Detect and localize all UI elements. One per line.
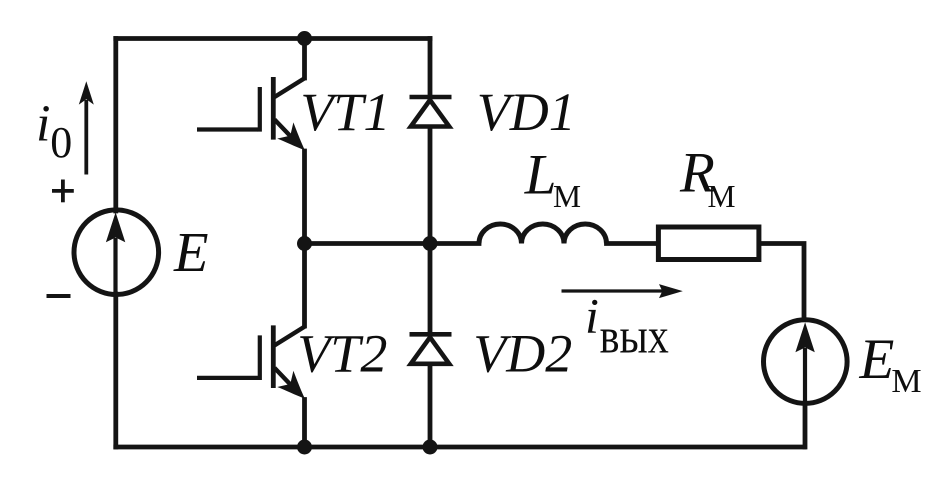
svg-text:вых: вых (600, 308, 669, 364)
current arrow i_vyh (562, 284, 683, 298)
wire VT1 emitter (302, 151, 307, 244)
wire VD1 cathode (428, 39, 433, 98)
label minus (47, 294, 71, 298)
wire middle bus (305, 241, 480, 246)
svg-text:i: i (36, 95, 50, 152)
resistor Rm (658, 227, 759, 260)
inductor Lm (479, 224, 607, 244)
node top junction (297, 31, 312, 46)
source E (74, 210, 159, 296)
wire VD1 anode (428, 128, 433, 244)
node middle junction left (297, 236, 312, 251)
svg-text:i: i (585, 288, 599, 344)
node bottom junction right (423, 440, 438, 455)
svg-text:VT1: VT1 (300, 82, 390, 142)
wire left branch lower (113, 294, 118, 447)
wire VD2 cathode (428, 244, 433, 335)
transistor VT1 (197, 77, 305, 150)
wire left branch upper (113, 39, 118, 212)
wire VT2 collector (302, 244, 307, 327)
svg-text:VT2: VT2 (297, 323, 387, 383)
wire VD2 anode (428, 367, 433, 448)
svg-text:М: М (891, 363, 921, 400)
current arrow i0 (79, 81, 94, 174)
svg-text:E: E (173, 222, 209, 284)
wire bottom bus (116, 445, 804, 450)
wire top bus (116, 36, 430, 41)
wire resistor to right corner (759, 244, 804, 318)
svg-text:М: М (553, 179, 581, 214)
wire Em source to bottom bus (803, 406, 808, 448)
wire VT2 emitter (302, 400, 307, 448)
wire VT1 collector (302, 39, 307, 79)
svg-text:VD2: VD2 (473, 323, 572, 383)
svg-text:E: E (859, 328, 895, 391)
svg-text:L: L (524, 143, 557, 206)
svg-text:VD1: VD1 (477, 82, 576, 142)
svg-text:0: 0 (50, 118, 72, 167)
svg-text:М: М (708, 179, 736, 214)
label plus (52, 180, 74, 203)
source Em (764, 320, 848, 404)
wire inductor to resistor (607, 241, 659, 246)
diode VD1 (410, 97, 452, 127)
node middle junction right (423, 236, 438, 251)
diode VD2 (410, 334, 452, 364)
node bottom junction left (297, 440, 312, 455)
transistor VT2 (197, 325, 305, 398)
